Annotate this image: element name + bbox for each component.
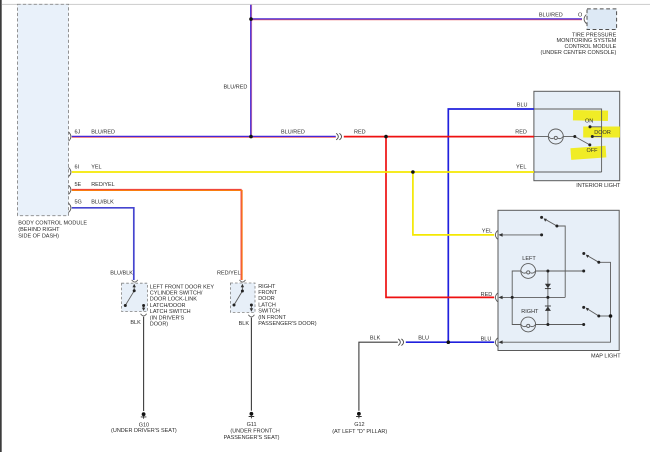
svg-text:5G: 5G <box>75 200 82 206</box>
svg-text:(IN FRONT: (IN FRONT <box>258 315 286 321</box>
svg-text:(UNDER FRONT: (UNDER FRONT <box>230 429 272 435</box>
svg-text:LEFT FRONT DOOR KEY: LEFT FRONT DOOR KEY <box>150 284 215 290</box>
left door switch output stem <box>143 306 145 308</box>
svg-text:BLK: BLK <box>130 320 141 326</box>
wire BLU/BLK 5G <box>72 208 134 280</box>
left door switch contact dots <box>124 304 127 307</box>
right door switch entry connector arc <box>240 280 246 282</box>
map light RIGHT bulb lamp <box>521 317 536 332</box>
junction YEL row <box>411 170 415 174</box>
svg-text:SIDE OF DASH): SIDE OF DASH) <box>18 233 59 239</box>
map light RED input arrow <box>498 296 502 300</box>
wire YEL vertical to map light <box>413 172 494 235</box>
svg-text:RIGHT: RIGHT <box>258 284 276 290</box>
page top frame line <box>2 3 650 6</box>
map light BLU connector <box>495 338 497 347</box>
wire BLU vertical <box>448 109 534 342</box>
right front door latch switch box <box>230 283 255 312</box>
ground G12 symbol <box>356 412 362 419</box>
svg-text:DOOR): DOOR) <box>150 322 169 328</box>
map light top switch arrowhead <box>544 219 547 222</box>
svg-text:6I: 6I <box>75 165 80 171</box>
svg-text:(BEHIND RIGHT: (BEHIND RIGHT <box>18 227 60 233</box>
BCM pin 6J connector <box>69 132 71 141</box>
BCM pin 6I connector <box>69 167 71 176</box>
map light YEL input arrow <box>498 233 502 237</box>
wire BLK right door to G11 <box>250 318 252 411</box>
map light YEL input wire <box>500 234 542 236</box>
left door switch up arrowhead <box>133 284 136 288</box>
svg-text:LEFT: LEFT <box>522 256 536 262</box>
svg-text:LATCH SWITCH: LATCH SWITCH <box>150 309 191 315</box>
right door switch down arrowhead <box>250 308 253 311</box>
junction top TPMS branch <box>249 17 253 21</box>
right door switch up arrowhead <box>241 284 244 288</box>
svg-text:BLU/BLK: BLU/BLK <box>110 271 133 277</box>
junction BLU/RED row <box>249 135 253 139</box>
inline connector C1 (BLU/RED to RED) <box>336 133 341 140</box>
svg-text:BLK: BLK <box>370 336 381 342</box>
interior light internal bottom bus (DOOR feed from YEL) <box>534 137 602 173</box>
map light top switch pivot to vertical wire <box>557 226 565 297</box>
svg-text:LATCH: LATCH <box>258 302 276 308</box>
svg-text:BODY CONTROL MODULE: BODY CONTROL MODULE <box>18 221 87 227</box>
map light LEFT bulb right wire <box>536 270 584 272</box>
svg-text:BLU: BLU <box>481 336 492 342</box>
map light upper right switch pivot wire <box>500 262 611 342</box>
svg-text:RED: RED <box>481 292 493 298</box>
svg-text:YEL: YEL <box>91 165 101 171</box>
svg-text:BLU/RED: BLU/RED <box>91 130 115 136</box>
body control module U-BCM box <box>18 4 69 215</box>
interior light switch arm <box>575 137 590 145</box>
page left border <box>0 0 2 452</box>
svg-text:RED/YEL: RED/YEL <box>91 182 115 188</box>
highlight OFF <box>570 146 606 160</box>
map light upper right switch arrowhead <box>586 255 589 258</box>
ground G10 symbol <box>141 412 147 418</box>
ground G11 symbol <box>249 412 255 419</box>
left door switch down arrowhead <box>142 308 145 311</box>
svg-text:PASSENGER'S DOOR): PASSENGER'S DOOR) <box>258 321 317 327</box>
junction RED row <box>384 135 388 139</box>
map light LEFT bulb lamp <box>521 264 536 279</box>
wire BLU/RED 6J row <box>72 135 336 137</box>
svg-text:6J: 6J <box>75 130 81 136</box>
map light diode D2 <box>545 305 551 307</box>
map light RIGHT bulb right wire <box>536 324 584 326</box>
svg-text:O: O <box>578 12 583 18</box>
map light upper right switch arm <box>587 255 599 262</box>
svg-text:G12: G12 <box>354 422 364 428</box>
map light RED connector <box>495 293 497 302</box>
svg-text:BLU: BLU <box>418 336 429 342</box>
svg-text:BLK: BLK <box>239 321 250 327</box>
tire pressure monitoring system control module box <box>587 9 617 30</box>
wire RED vertical to map light <box>386 137 494 298</box>
map light YEL connector <box>495 231 497 240</box>
interior light box <box>534 91 620 180</box>
map light lower right switch arrowhead <box>586 308 589 311</box>
wire BLU bottom row <box>406 341 494 343</box>
svg-text:BLU/RED: BLU/RED <box>281 129 305 135</box>
right door switch arrow stem <box>241 287 243 291</box>
interior light switch contact dots <box>573 135 576 138</box>
svg-text:SWITCH: SWITCH <box>258 309 280 315</box>
junction BLU bottom <box>447 340 451 344</box>
svg-text:(UNDER DRIVER'S SEAT): (UNDER DRIVER'S SEAT) <box>111 428 177 434</box>
left door switch exit connector arc <box>141 314 147 316</box>
svg-text:LATCH/DOOR: LATCH/DOOR <box>150 303 186 309</box>
svg-text:PASSENGER'S SEAT): PASSENGER'S SEAT) <box>224 435 280 441</box>
wire BLU/RED vertical <box>250 5 252 137</box>
left door switch arm <box>125 291 134 306</box>
map light lower right switch pivot wire <box>599 315 611 317</box>
svg-text:BLU/RED: BLU/RED <box>539 12 563 18</box>
left door switch arrow stem <box>133 287 135 291</box>
svg-text:OFF: OFF <box>587 148 599 154</box>
map light RED input wire <box>500 296 565 298</box>
svg-text:BLU: BLU <box>517 102 528 108</box>
interior light bulb to switch pivot wire <box>563 136 575 138</box>
svg-text:DOOR: DOOR <box>258 296 275 302</box>
wire BLU/RED to TPMS <box>251 18 582 20</box>
svg-text:DOOR LOCK-LINK: DOOR LOCK-LINK <box>150 297 197 303</box>
svg-text:G11: G11 <box>247 422 257 428</box>
interior light bulb lamp <box>548 129 563 144</box>
left front door switch box <box>122 283 148 311</box>
TPMS module connector <box>584 15 586 24</box>
left door switch entry connector arc <box>132 280 138 282</box>
highlight DOOR <box>583 127 620 138</box>
svg-text:BLU/BLK: BLU/BLK <box>91 200 114 206</box>
right door switch output stem <box>250 305 252 308</box>
interior light internal top bus (ON feed from BLU) <box>534 109 602 172</box>
BCM pin 5G connector <box>69 203 71 212</box>
map light top switch arm <box>544 219 557 226</box>
svg-text:ON: ON <box>585 118 593 124</box>
map light BLU output arrow <box>498 340 502 344</box>
wire BLK to G12 <box>359 342 398 411</box>
svg-text:RIGHT: RIGHT <box>521 309 539 315</box>
interior light bulb feed wire <box>534 136 548 138</box>
map light lower right switch arm <box>586 308 598 316</box>
highlight ON <box>573 110 608 121</box>
wire RED interior light row <box>344 136 534 138</box>
map light diode D1 <box>545 284 551 289</box>
svg-text:(UNDER CENTER CONSOLE): (UNDER CENTER CONSOLE) <box>541 50 617 56</box>
right door switch contact dots <box>233 304 236 307</box>
right door switch arm <box>234 291 242 305</box>
BCM pin 5E connector <box>69 185 71 194</box>
svg-text:RED: RED <box>515 129 527 135</box>
svg-text:MAP LIGHT: MAP LIGHT <box>591 353 621 359</box>
svg-text:YEL: YEL <box>482 229 492 235</box>
svg-text:BLU/RED: BLU/RED <box>224 85 248 91</box>
svg-text:5E: 5E <box>75 182 82 188</box>
svg-text:(IN DRIVER'S: (IN DRIVER'S <box>150 315 185 321</box>
map light LEFT bulb left wire <box>512 271 521 325</box>
svg-text:YEL: YEL <box>516 164 526 170</box>
svg-text:FRONT: FRONT <box>258 290 278 296</box>
map light box <box>498 210 619 350</box>
wire RED/YEL 5E <box>72 189 241 280</box>
inline connector C2 (BLK to BLU) <box>398 339 403 346</box>
svg-text:CYLINDER SWITCH/: CYLINDER SWITCH/ <box>150 291 203 297</box>
svg-text:INTERIOR LIGHT: INTERIOR LIGHT <box>576 183 621 189</box>
svg-text:(AT LEFT "D" PILLAR): (AT LEFT "D" PILLAR) <box>332 429 387 435</box>
right door switch exit connector arc <box>248 315 254 317</box>
svg-text:RED: RED <box>354 129 366 135</box>
wire BLK left door to G10 <box>143 317 145 411</box>
map light diode branch wire <box>547 271 549 325</box>
svg-text:DOOR: DOOR <box>594 130 611 136</box>
svg-text:RED/YEL: RED/YEL <box>217 271 241 277</box>
wire YEL 6I row <box>72 171 534 173</box>
map light contact dots <box>540 216 543 219</box>
